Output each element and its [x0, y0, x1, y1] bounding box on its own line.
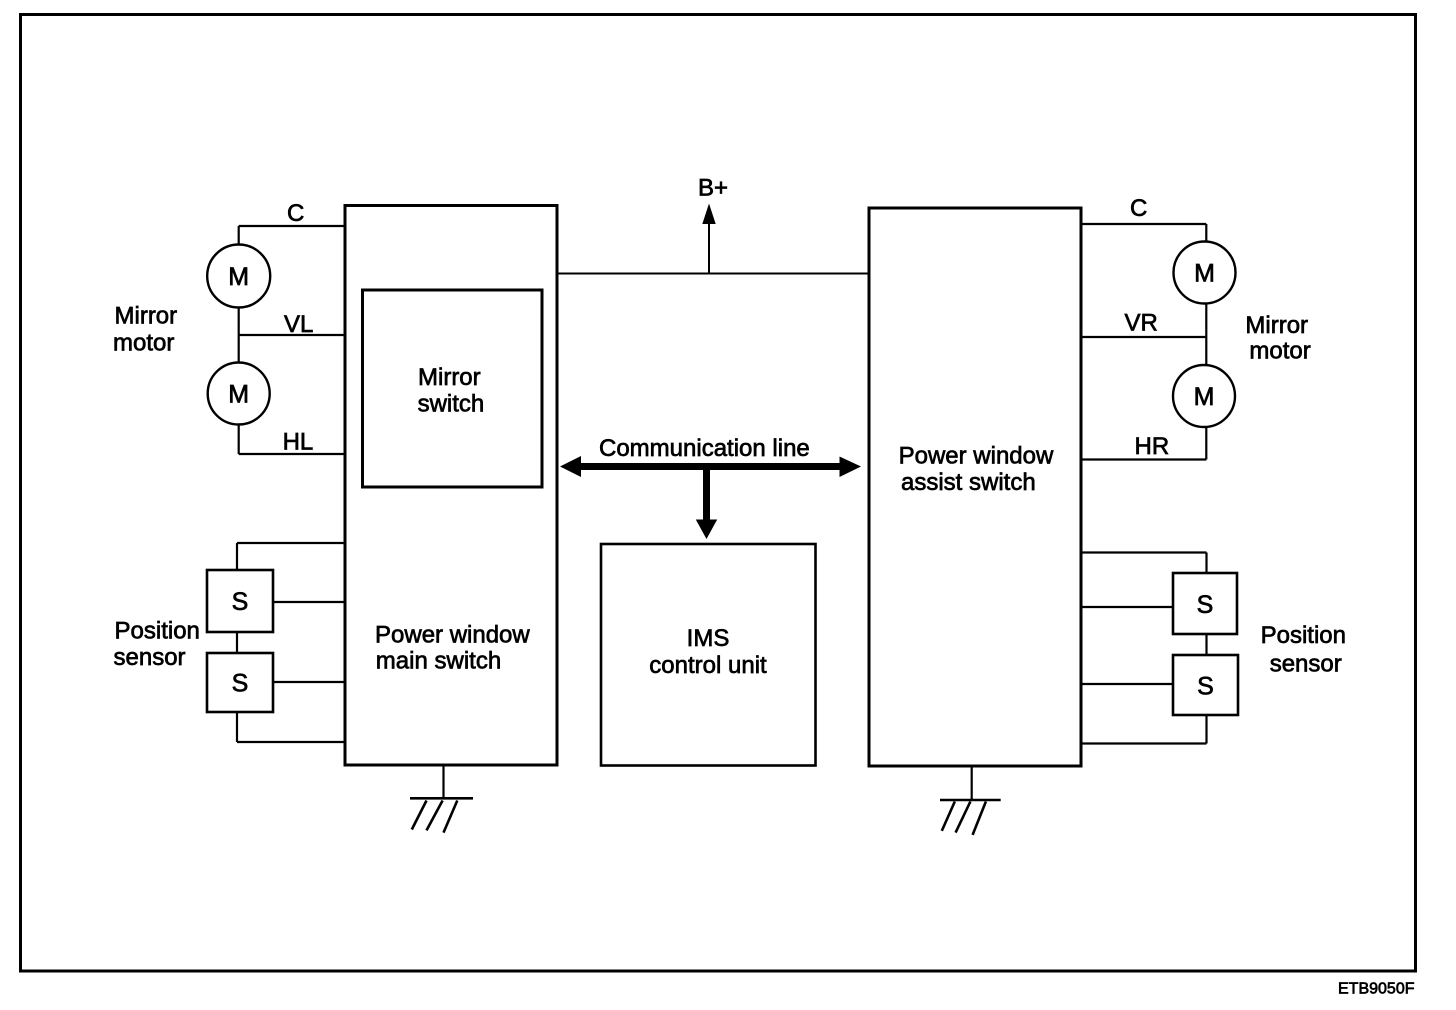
svg-text:HR: HR — [1135, 433, 1170, 460]
svg-text:Position: Position — [1261, 622, 1346, 649]
svg-text:ETB9050F: ETB9050F — [1338, 981, 1415, 998]
svg-text:VR: VR — [1125, 310, 1158, 337]
svg-text:VL: VL — [284, 311, 313, 338]
svg-text:C: C — [1130, 195, 1147, 222]
svg-text:IMS: IMS — [687, 625, 730, 652]
svg-text:Power window: Power window — [375, 622, 530, 649]
svg-text:C: C — [287, 200, 304, 227]
svg-text:B+: B+ — [698, 175, 728, 202]
svg-text:S: S — [232, 588, 249, 616]
svg-text:Mirror: Mirror — [1245, 312, 1308, 339]
svg-text:sensor: sensor — [114, 644, 186, 671]
svg-text:Communication line: Communication line — [599, 435, 810, 462]
svg-text:assist switch: assist switch — [901, 469, 1036, 496]
svg-text:Position: Position — [115, 618, 200, 645]
svg-text:S: S — [1197, 591, 1214, 619]
svg-text:M: M — [228, 381, 249, 409]
svg-text:Power window: Power window — [899, 443, 1054, 470]
svg-text:S: S — [1197, 673, 1214, 701]
svg-text:S: S — [232, 670, 249, 698]
svg-text:motor: motor — [1249, 338, 1310, 365]
svg-text:Mirror: Mirror — [418, 364, 481, 391]
svg-text:control unit: control unit — [649, 652, 767, 679]
svg-text:main switch: main switch — [376, 648, 501, 675]
svg-text:motor: motor — [113, 330, 174, 357]
svg-text:switch: switch — [418, 390, 485, 417]
svg-text:M: M — [1194, 260, 1215, 288]
svg-text:Mirror: Mirror — [115, 302, 178, 329]
svg-text:M: M — [1194, 383, 1215, 411]
svg-text:sensor: sensor — [1270, 651, 1342, 678]
svg-text:HL: HL — [283, 429, 314, 456]
svg-text:M: M — [228, 263, 249, 291]
